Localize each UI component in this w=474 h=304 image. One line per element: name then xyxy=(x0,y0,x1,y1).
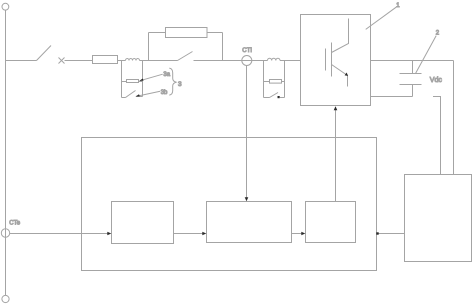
svg-text:1: 1 xyxy=(396,3,400,9)
wire sub-branch2 resistor leads xyxy=(264,81,285,83)
wire CT1 sense line xyxy=(246,66,248,201)
arrow into box2 xyxy=(202,232,206,236)
svg-text:3a: 3a xyxy=(163,72,170,78)
transistor Q1 emitter arrow xyxy=(345,73,349,76)
arrow into box2 top xyxy=(245,197,249,201)
arrow into box3 xyxy=(301,232,305,236)
resistor R3a xyxy=(127,80,139,83)
wire bypass top right xyxy=(207,32,223,34)
wire sub-branch2 right vertical xyxy=(284,61,286,98)
fault mark X xyxy=(59,58,65,64)
terminal top-left xyxy=(2,3,9,10)
inductor L2 xyxy=(268,58,280,60)
svg-text:2: 2 xyxy=(436,31,440,37)
wire capacitor bottom lead xyxy=(412,85,414,97)
wire sub-branch1 right vertical xyxy=(142,61,144,97)
wire bypass right vertical xyxy=(222,33,224,61)
transistor Q1 emitter xyxy=(332,65,348,87)
wire CTe to box1 xyxy=(10,233,109,235)
wire right bus vertical xyxy=(453,61,455,175)
wire S2 to L2 xyxy=(194,60,268,62)
arrow 3a xyxy=(139,79,143,81)
transistor Q1 collector xyxy=(332,19,349,53)
wire sub-branch1 bottom right xyxy=(137,96,143,98)
wire R1 to L1 xyxy=(118,60,126,62)
switch S4 blade xyxy=(270,93,279,98)
resistor R2 xyxy=(166,28,208,38)
wire X to R1 xyxy=(65,60,93,62)
box2 xyxy=(207,202,292,243)
transistor Q1 gate bar xyxy=(325,49,327,71)
box3 xyxy=(306,202,356,243)
leader line 2 xyxy=(416,36,437,74)
resistor R4 xyxy=(270,80,282,84)
block B5 bottom right xyxy=(405,175,472,262)
switch S3b blade xyxy=(126,91,136,98)
arrow into box1 xyxy=(107,232,111,236)
wire sub-branch2 bottom right xyxy=(280,97,285,99)
CTe circle xyxy=(1,229,9,237)
wire bypass top left xyxy=(149,32,166,34)
inverter box U1 xyxy=(301,15,371,106)
switch S2 blade xyxy=(178,52,193,61)
resistor R1 xyxy=(93,56,118,64)
wire bypass left vertical xyxy=(148,33,150,61)
leader 3a xyxy=(140,74,163,81)
CT1 circle xyxy=(242,56,252,66)
svg-text:CTi: CTi xyxy=(242,48,252,54)
wire box1 to box2 xyxy=(174,233,204,235)
svg-text:CTe: CTe xyxy=(9,221,21,227)
svg-text:Vdc: Vdc xyxy=(430,77,443,84)
wire inverter top right lead xyxy=(371,60,454,62)
wire L1 to switch S2 xyxy=(140,60,178,62)
transistor Q1 main bar xyxy=(331,43,333,77)
wire gate drive line xyxy=(335,110,337,202)
leader 3b xyxy=(136,91,160,96)
wire box2 to box3 xyxy=(292,233,304,235)
inductor L1 xyxy=(126,59,140,61)
wire sub-branch2 left vertical xyxy=(263,61,265,98)
wire inverter bottom right lead xyxy=(371,96,413,98)
wire sub-branch2 bottom left xyxy=(264,97,270,99)
wire stub to block xyxy=(433,97,441,175)
wire sub-branch1 left vertical xyxy=(121,61,123,98)
svg-text:3b: 3b xyxy=(161,90,168,96)
wire L2 to inverter xyxy=(280,60,301,62)
capacitor C1 plates xyxy=(400,74,422,85)
control outer box xyxy=(82,138,377,271)
wire sub-branch1 bottom left xyxy=(122,97,126,99)
switch S4 contact dot xyxy=(278,96,280,98)
wire capacitor top lead xyxy=(412,61,414,74)
wire control box to block B5 xyxy=(377,233,405,235)
brace 3 xyxy=(169,68,176,95)
leader line 1 xyxy=(366,7,397,30)
svg-text:3: 3 xyxy=(178,81,182,88)
box1 xyxy=(112,202,174,244)
arrow 3b xyxy=(135,94,139,96)
wire main line left xyxy=(6,60,37,62)
switch S1 blade xyxy=(37,46,52,61)
arrow into inverter bottom xyxy=(334,106,338,110)
terminal bottom-left xyxy=(2,295,9,302)
wire left bus xyxy=(5,10,7,295)
junction dot xyxy=(376,232,378,234)
wire sub-branch1 resistor leads xyxy=(122,81,143,83)
